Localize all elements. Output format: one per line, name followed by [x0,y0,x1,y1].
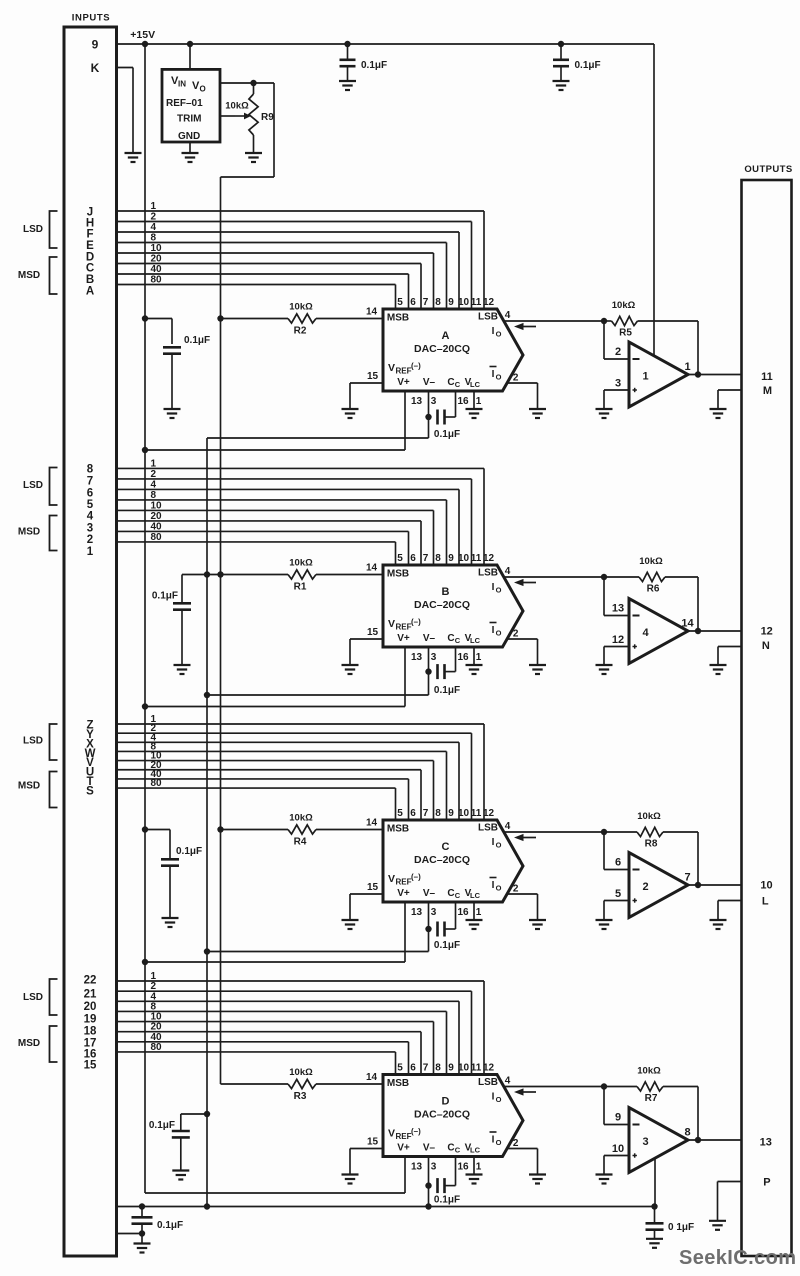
svg-text:0.1μF: 0.1μF [575,60,601,71]
svg-text:1: 1 [476,652,482,663]
svg-text:9: 9 [448,1063,454,1074]
svg-text:V: V [388,873,395,885]
svg-text:4: 4 [151,479,157,490]
svg-text:4: 4 [505,1076,511,1087]
svg-text:V: V [388,1128,395,1140]
svg-text:D: D [442,1096,450,1108]
svg-text:3: 3 [87,523,93,535]
svg-text:7: 7 [423,297,429,308]
svg-text:MSD: MSD [18,1038,40,1049]
svg-text:F: F [86,229,93,241]
svg-text:1: 1 [87,546,94,558]
svg-text:M: M [763,385,772,397]
svg-text:11: 11 [471,553,482,564]
svg-text:20: 20 [151,254,163,265]
svg-text:B: B [442,586,450,598]
svg-text:+15V: +15V [130,29,155,41]
svg-text:2: 2 [615,346,621,358]
svg-text:(–): (–) [411,618,421,627]
svg-text:2: 2 [151,469,157,480]
svg-text:10: 10 [458,1063,470,1074]
svg-text:2: 2 [513,373,519,384]
svg-text:0.1μF: 0.1μF [434,429,460,440]
svg-text:E: E [86,240,94,252]
svg-text:80: 80 [151,532,163,543]
svg-text:10kΩ: 10kΩ [639,556,663,567]
svg-text:R3: R3 [294,1091,307,1102]
svg-text:13: 13 [612,603,624,615]
svg-text:5: 5 [615,888,621,900]
svg-text:2: 2 [151,212,157,223]
svg-text:5: 5 [397,1063,403,1074]
svg-text:N: N [762,640,770,652]
svg-text:V–: V– [423,1143,436,1154]
svg-text:R8: R8 [645,839,658,850]
svg-text:GND: GND [178,131,200,142]
svg-text:S: S [86,786,94,798]
svg-text:MSD: MSD [18,270,40,281]
svg-text:9: 9 [448,553,454,564]
svg-text:10: 10 [151,243,163,254]
svg-text:16: 16 [457,907,469,918]
svg-text:10kΩ: 10kΩ [289,813,313,824]
svg-text:V+: V+ [397,377,410,388]
svg-text:2: 2 [513,1138,519,1149]
svg-text:O: O [496,1138,502,1147]
svg-text:DAC–20CQ: DAC–20CQ [414,1109,470,1121]
svg-text:(–): (–) [411,873,421,882]
svg-text:15: 15 [367,627,379,638]
svg-text:6: 6 [410,1063,416,1074]
svg-text:LSB: LSB [478,568,498,579]
svg-text:C: C [447,888,454,899]
svg-text:LSD: LSD [23,992,43,1003]
svg-text:15: 15 [84,1060,97,1072]
svg-text:5: 5 [397,808,403,819]
svg-text:0.1μF: 0.1μF [152,591,178,602]
svg-text:15: 15 [367,1137,379,1148]
svg-text:12: 12 [483,808,495,819]
svg-text:10: 10 [760,880,772,892]
svg-text:10kΩ: 10kΩ [289,558,313,569]
svg-text:0 1μF: 0 1μF [668,1222,694,1233]
svg-text:I: I [492,837,495,848]
svg-text:REF–01: REF–01 [166,98,203,109]
svg-text:I: I [492,582,495,593]
svg-text:2: 2 [513,884,519,895]
svg-text:3: 3 [431,1162,437,1173]
svg-text:O: O [496,373,502,382]
svg-text:18: 18 [84,1026,97,1038]
svg-text:13: 13 [411,652,423,663]
svg-text:(–): (–) [411,1127,421,1136]
svg-text:REF: REF [396,878,412,887]
svg-text:80: 80 [151,1042,163,1053]
svg-text:I: I [492,369,495,380]
svg-text:0.1μF: 0.1μF [434,940,460,951]
svg-text:2: 2 [642,881,648,893]
svg-text:1: 1 [151,201,157,212]
svg-text:3: 3 [431,907,437,918]
svg-text:LC: LC [470,380,481,389]
svg-text:11: 11 [471,808,482,819]
svg-text:REF: REF [396,367,412,376]
svg-text:B: B [86,274,94,286]
svg-text:MSB: MSB [387,569,409,580]
svg-text:10: 10 [458,808,470,819]
svg-text:2: 2 [513,629,519,640]
svg-text:DAC–20CQ: DAC–20CQ [414,599,470,611]
svg-text:40: 40 [151,521,163,532]
svg-text:I: I [492,326,495,337]
svg-text:R7: R7 [645,1093,658,1104]
svg-text:7: 7 [423,553,429,564]
svg-text:3: 3 [615,378,621,390]
svg-text:6: 6 [87,488,93,500]
svg-text:16: 16 [457,652,469,663]
svg-text:LSB: LSB [478,1077,498,1088]
svg-text:8: 8 [151,490,157,501]
svg-text:7: 7 [423,1063,429,1074]
svg-text:12: 12 [612,634,624,646]
svg-text:4: 4 [151,222,157,233]
svg-text:I: I [492,1092,495,1103]
svg-text:INPUTS: INPUTS [72,13,110,24]
svg-text:C: C [455,380,461,389]
svg-text:3: 3 [431,396,437,407]
svg-text:R9: R9 [261,112,274,123]
svg-text:LC: LC [470,891,481,900]
svg-text:10kΩ: 10kΩ [289,302,313,313]
svg-text:O: O [496,586,502,595]
svg-text:10kΩ: 10kΩ [637,811,661,822]
svg-text:1: 1 [684,361,690,373]
svg-text:6: 6 [410,297,416,308]
svg-text:3: 3 [642,1136,648,1148]
svg-text:R6: R6 [647,584,660,595]
svg-text:13: 13 [411,396,423,407]
svg-text:20: 20 [151,511,163,522]
svg-text:7: 7 [684,872,690,884]
svg-text:40: 40 [151,264,163,275]
svg-text:9: 9 [448,297,454,308]
svg-text:14: 14 [366,307,378,318]
svg-text:8: 8 [435,1063,441,1074]
svg-text:4: 4 [642,627,649,639]
svg-text:DAC–20CQ: DAC–20CQ [414,343,470,355]
svg-text:V+: V+ [397,1143,410,1154]
svg-text:OUTPUTS: OUTPUTS [744,164,792,175]
svg-text:14: 14 [366,1072,378,1083]
svg-text:0.1μF: 0.1μF [434,1195,460,1206]
svg-text:8: 8 [435,297,441,308]
svg-text:R5: R5 [619,328,632,339]
svg-text:IN: IN [178,80,186,89]
svg-text:V–: V– [423,888,436,899]
svg-text:REF: REF [396,623,412,632]
svg-text:MSB: MSB [387,1078,409,1089]
svg-text:5: 5 [397,297,403,308]
svg-text:19: 19 [84,1014,97,1026]
svg-text:I: I [492,1135,495,1146]
svg-text:MSB: MSB [387,824,409,835]
svg-text:V: V [388,618,395,630]
svg-text:16: 16 [457,1162,469,1173]
svg-text:O: O [496,629,502,638]
svg-text:L: L [762,896,769,908]
svg-text:0.1μF: 0.1μF [176,846,202,857]
svg-text:V+: V+ [397,888,410,899]
svg-text:5: 5 [397,553,403,564]
svg-text:C: C [447,633,454,644]
svg-text:80: 80 [151,275,163,286]
svg-text:14: 14 [366,818,378,829]
svg-text:21: 21 [84,989,97,1001]
svg-text:REF: REF [396,1132,412,1141]
svg-text:9: 9 [615,1112,621,1124]
svg-text:MSB: MSB [387,313,409,324]
svg-text:7: 7 [423,808,429,819]
svg-text:(–): (–) [411,362,421,371]
svg-text:5: 5 [87,499,94,511]
svg-text:R1: R1 [294,582,307,593]
svg-text:0.1μF: 0.1μF [149,1120,175,1131]
svg-text:7: 7 [87,476,93,488]
svg-text:LSB: LSB [478,823,498,834]
svg-text:TRIM: TRIM [177,114,201,125]
svg-text:4: 4 [505,566,511,577]
svg-text:LSB: LSB [478,312,498,323]
svg-text:MSD: MSD [18,527,40,538]
svg-text:O: O [496,841,502,850]
svg-text:K: K [91,61,100,75]
svg-text:10kΩ: 10kΩ [637,1066,661,1077]
svg-text:12: 12 [483,553,495,564]
svg-text:LSD: LSD [23,736,43,747]
svg-text:8: 8 [435,808,441,819]
svg-text:10: 10 [458,553,470,564]
svg-text:12: 12 [483,1063,495,1074]
svg-text:C: C [455,891,461,900]
svg-text:4: 4 [505,821,511,832]
svg-text:8: 8 [684,1127,690,1139]
svg-text:C: C [447,377,454,388]
svg-text:V–: V– [423,633,436,644]
svg-text:1: 1 [151,458,157,469]
svg-text:11: 11 [471,297,482,308]
svg-text:9: 9 [92,38,99,52]
svg-text:6: 6 [410,553,416,564]
svg-text:C: C [447,1143,454,1154]
svg-text:15: 15 [367,882,379,893]
svg-text:DAC–20CQ: DAC–20CQ [414,854,470,866]
svg-text:0.1μF: 0.1μF [184,335,210,346]
svg-text:V+: V+ [397,633,410,644]
svg-text:O: O [496,330,502,339]
svg-text:I: I [492,880,495,891]
svg-text:20: 20 [84,1001,97,1013]
svg-text:10: 10 [612,1143,624,1155]
svg-text:80: 80 [151,778,163,789]
svg-text:12: 12 [483,297,495,308]
svg-text:8: 8 [151,233,157,244]
svg-text:MSD: MSD [18,781,40,792]
svg-text:LSD: LSD [23,224,43,235]
svg-text:1: 1 [476,907,482,918]
svg-text:6: 6 [615,857,621,869]
svg-text:V: V [388,362,395,374]
svg-text:R2: R2 [294,326,307,337]
svg-text:P: P [763,1176,770,1188]
svg-text:13: 13 [760,1136,772,1148]
svg-text:LC: LC [470,1146,481,1155]
svg-text:11: 11 [471,1063,482,1074]
svg-text:1: 1 [642,371,648,383]
svg-text:4: 4 [505,310,511,321]
svg-text:2: 2 [87,534,93,546]
svg-text:C: C [442,841,450,853]
svg-text:O: O [200,85,206,94]
svg-text:11: 11 [761,371,773,383]
svg-text:V–: V– [423,377,436,388]
svg-text:O: O [496,884,502,893]
svg-text:1: 1 [476,396,482,407]
svg-text:16: 16 [457,396,469,407]
svg-text:LSD: LSD [23,480,43,491]
svg-text:13: 13 [411,907,423,918]
svg-text:A: A [442,330,450,342]
svg-text:0.1μF: 0.1μF [434,685,460,696]
svg-text:10: 10 [458,297,470,308]
svg-text:6: 6 [410,808,416,819]
svg-text:3: 3 [431,652,437,663]
svg-text:14: 14 [681,618,694,630]
svg-text:14: 14 [366,563,378,574]
svg-text:10kΩ: 10kΩ [225,101,249,112]
svg-text:O: O [496,1095,502,1104]
svg-text:10kΩ: 10kΩ [612,300,636,311]
svg-text:9: 9 [448,808,454,819]
svg-text:1: 1 [476,1162,482,1173]
svg-text:0.1μF: 0.1μF [157,1220,183,1231]
svg-text:8: 8 [435,553,441,564]
svg-text:R4: R4 [294,837,307,848]
svg-text:C: C [455,1146,461,1155]
svg-text:22: 22 [84,975,97,987]
svg-text:4: 4 [87,511,94,523]
svg-text:13: 13 [411,1162,423,1173]
svg-text:0.1μF: 0.1μF [361,60,387,71]
svg-text:C: C [86,263,94,275]
svg-text:8: 8 [87,464,94,476]
svg-text:10kΩ: 10kΩ [289,1067,313,1078]
svg-text:SeekIC.com: SeekIC.com [679,1247,796,1269]
svg-text:C: C [455,636,461,645]
svg-text:12: 12 [761,626,773,638]
svg-text:15: 15 [367,371,379,382]
svg-text:I: I [492,625,495,636]
svg-text:LC: LC [470,636,481,645]
svg-text:10: 10 [151,500,163,511]
svg-text:A: A [86,286,94,298]
